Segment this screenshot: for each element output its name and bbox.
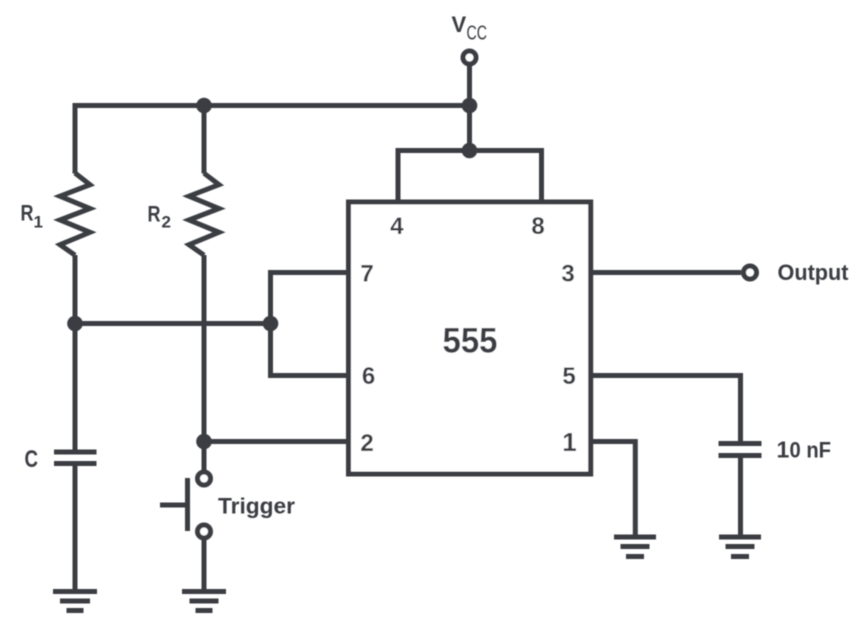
svg-text:2: 2 [360,430,373,457]
wire threshold rail [75,321,271,326]
svg-text:CC: CC [467,23,488,45]
wire R2 bottom to trigger node [202,255,207,442]
label 10 nF [777,437,832,463]
svg-text:R: R [21,201,34,226]
svg-text:R: R [148,202,161,227]
svg-text:C: C [25,446,39,473]
junction Vcc / top rail [462,98,478,114]
terminal Output [744,266,757,279]
wire pin7 to pin6 connector [271,273,349,376]
wire trigger node to pushbutton [202,442,207,471]
svg-text:8: 8 [531,213,544,240]
svg-text:V: V [452,12,467,37]
svg-text:4: 4 [390,213,404,240]
svg-text:1: 1 [34,213,43,232]
wire R1 bottom to capacitor C [73,255,78,450]
label Vcc [452,12,488,45]
label R2 [148,202,171,232]
ground under pushbutton [182,592,226,611]
pushbutton Trigger actuator stem [160,503,188,508]
wire Vcc vertical [467,64,472,151]
label R1 [21,201,43,232]
svg-text:6: 6 [362,363,375,390]
wire top rail [75,106,470,174]
wire 10nF capacitor to ground [738,456,743,537]
junction R2 / top rail [196,98,212,114]
ground under C [53,592,97,611]
svg-text:Trigger: Trigger [218,494,295,519]
junction Vcc / pin4-8 rail [462,143,478,159]
wire R2 top [202,106,207,174]
wire trigger rail to pin 2 [204,439,349,444]
resistor R2 [189,173,219,255]
pushbutton Trigger terminal top [198,472,211,485]
wire pushbutton to ground [202,540,207,591]
svg-text:Output: Output [778,260,850,285]
pushbutton Trigger terminal bottom [198,525,211,538]
junction threshold rail / pin7-6 connector [263,316,279,332]
ground under pin 1 [614,537,656,557]
ground under 10nF [719,537,761,557]
svg-text:2: 2 [162,213,171,232]
capacitor 10nF [719,444,762,456]
pushbutton Trigger actuator bar [185,478,190,531]
wire pin 3 output [591,270,741,275]
wire pin 5 to bypass capacitor [591,376,741,442]
svg-text:7: 7 [360,261,373,288]
wire capacitor C to ground [73,464,78,591]
capacitor C [54,452,97,464]
wire rail to pins 4 and 8 [398,151,542,205]
svg-text:555: 555 [443,322,498,361]
wire pin 1 to ground [591,442,636,537]
resistor R1 [60,173,90,255]
svg-text:3: 3 [561,261,574,288]
svg-text:0 nF: 0 nF [790,438,832,463]
power terminal Vcc [463,51,476,64]
junction R1 / threshold rail [67,316,83,332]
junction trigger node [196,434,212,450]
op-amp U1 555 IC body [349,202,591,474]
svg-text:1: 1 [562,427,576,457]
svg-text:5: 5 [562,363,575,390]
svg-text:1: 1 [777,437,790,463]
